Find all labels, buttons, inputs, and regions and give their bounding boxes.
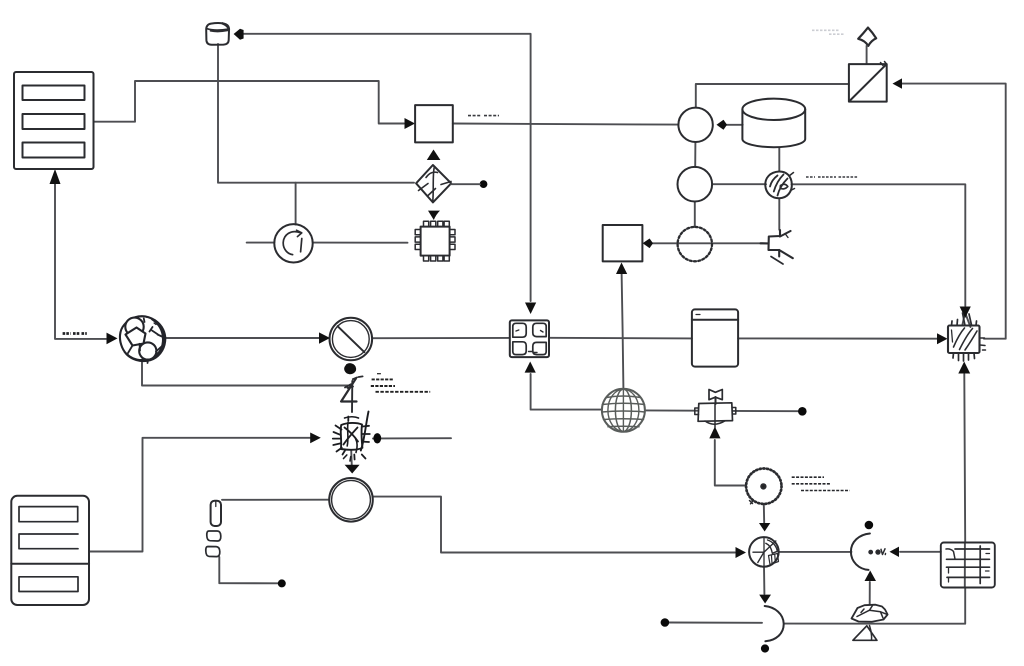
wire server3 right up to starburst (arrow) (89, 438, 311, 552)
wire bumps bottom to dot (219, 557, 278, 583)
wire circle C4 right long to clock (arrow) (373, 497, 735, 553)
node dot below bottom arc (761, 644, 769, 652)
arc2 (opening right) (851, 534, 886, 570)
server box C (bottom-left) (11, 496, 89, 605)
arrowhead up into square S2 bottom (616, 263, 627, 275)
funnel sketch (853, 626, 877, 641)
arrowhead down into clock top (759, 523, 770, 532)
wire clock bottom to bottom arc (arrow) (763, 567, 765, 595)
wire starburst right to end stub (373, 437, 451, 439)
valve component (695, 390, 736, 429)
arrowhead into soccer ball (107, 333, 118, 345)
arrowhead into package square right (893, 78, 903, 88)
arrowhead big down into circle C4 (345, 465, 360, 474)
wire circle P1 to circle P2 (694, 142, 696, 167)
wire vertical into server box bottom and to soccer ball (55, 180, 106, 339)
tiny label left of soccer ball (63, 332, 87, 335)
server box A (top-left) (14, 72, 94, 169)
arrowhead up into cross bottom (525, 362, 536, 373)
arrowhead into chip X left (937, 333, 948, 344)
circle C4 (double ring) (329, 478, 373, 522)
circle P2 (678, 167, 713, 202)
wire dot to bottom arc opening (669, 622, 762, 624)
IC chip C1 (415, 221, 455, 261)
wire package square right loop down to chip X right (901, 84, 1006, 339)
tiny text lines near sketch-4 (371, 374, 430, 392)
hand sketch (852, 605, 888, 622)
browser window box (692, 309, 738, 366)
wire square S2 bottom down to globe top (622, 273, 624, 388)
arrowhead into process box left (405, 118, 416, 129)
clock circle (749, 537, 779, 567)
diamond gateway D1 (416, 165, 480, 202)
arrowhead into no-entry circle (319, 332, 330, 343)
stub left of refresh circle (247, 242, 275, 244)
wire circle P2 right to transistor sketch (712, 183, 766, 185)
node dot above arc2 (865, 521, 874, 530)
wire globe row: cross bottom loop (531, 374, 602, 410)
bottom arc (765, 606, 784, 641)
wire cylinder bottom to diamond left (218, 44, 414, 183)
arrowhead kite into circle P1 right (717, 120, 728, 130)
kite/spinner on package (858, 28, 876, 64)
wire circle C4 left to bumps element (222, 499, 329, 501)
arrowhead kite into square S2 right (643, 239, 653, 249)
wire transistor right across to chip X top (792, 184, 971, 327)
dotted circle gauge (746, 469, 781, 504)
arrowhead into starburst left (310, 433, 321, 444)
wire big cylinder left to circle P1 (arrow) (725, 124, 743, 126)
circle P3 (sketchy rim) (678, 227, 712, 261)
no-entry circle (330, 318, 373, 361)
cross component (4 corner pads) (510, 320, 549, 357)
arrowhead down into bottom arc (759, 595, 771, 604)
arrowhead down into chip X top (960, 307, 971, 319)
wire from server box right to process box (top left) (94, 81, 405, 124)
starburst scribble (333, 412, 370, 462)
arrowhead down into cross top (525, 303, 536, 315)
wire transistor2 left through circle P3 to square S2 (arrow) (651, 242, 768, 244)
wire transistor1 to transistor2 (778, 198, 780, 229)
arrowhead up into chip X bottom (958, 362, 970, 374)
wire long from right into cylinder, then down to cross component (242, 34, 531, 301)
wire dotted-circle left to valve bottom (arrow) (715, 440, 746, 486)
wire refresh circle to chip (313, 242, 408, 244)
chip X (sketchy) (948, 313, 986, 361)
refresh circle R1 (274, 224, 312, 262)
wire no-entry right to cross left (372, 337, 510, 339)
transistor sketch T2 (761, 230, 793, 264)
wire cross right to browser box (549, 337, 692, 340)
small cylinder (top) (206, 23, 229, 45)
wire soccer bottom loop to sketch-4 (142, 360, 352, 386)
package square with diagonal (849, 62, 887, 102)
node dot right of diamond (480, 180, 488, 188)
dashed label right of process box (468, 115, 499, 117)
arrowhead into clock left (736, 547, 747, 558)
node dot right of starburst (373, 433, 381, 443)
arrowhead kite into top cylinder (234, 29, 244, 40)
big cylinder DB (742, 99, 805, 148)
wire bottom arc right to table, up to chip X bottom (arrow) (785, 374, 965, 624)
circle P1 (678, 108, 712, 142)
bumps element (206, 501, 221, 557)
arrowhead up into valve bottom (709, 427, 720, 439)
process box B1 (415, 105, 453, 142)
faint text top right (812, 30, 844, 34)
arrowhead up into arc2 bottom (865, 571, 877, 582)
wire browser box right to chip X left (arrow) (738, 337, 939, 339)
wire soccer right to no-entry (arrow) (163, 337, 322, 339)
wire package square left to circle P1 top (696, 84, 849, 108)
globe (602, 389, 645, 432)
lightning-4 sketch below no-entry (341, 364, 363, 412)
wire big cylinder bottom down to transistor (778, 148, 780, 172)
wire dotted-circle bottom to clock top (arrow) (763, 504, 765, 523)
wire globe right to valve left (645, 409, 698, 411)
soccer ball (120, 316, 166, 363)
wire process box right to circle P1 left (453, 124, 679, 125)
node dot right of valve (798, 407, 807, 416)
arrowhead diamond bottom down to chip (428, 211, 440, 220)
table box (941, 543, 995, 588)
square S2 (603, 225, 643, 261)
node dot left of bottom arc (661, 618, 670, 627)
transistor sketch T1 (765, 171, 794, 198)
dashed label right of transistor (806, 176, 858, 178)
wire hand up into arc2 (arrow) (869, 582, 871, 604)
tiny text right of dotted circle (792, 477, 850, 490)
node dot bottom-left stub (278, 579, 286, 587)
arrowhead diamond top to process box bottom (427, 150, 441, 161)
wire branch down to refresh circle (295, 183, 297, 225)
arrowhead into server box bottom (50, 169, 61, 184)
wire table left to arc2 (arrow) (900, 551, 941, 553)
wire circle P2 to circle P3 (694, 202, 696, 227)
wire clock right to arc2 left (779, 551, 852, 553)
wire valve right to dot (733, 410, 799, 412)
wire starburst bottom to circle C4 (350, 450, 353, 466)
arrowhead left at arc2 right (890, 547, 900, 557)
